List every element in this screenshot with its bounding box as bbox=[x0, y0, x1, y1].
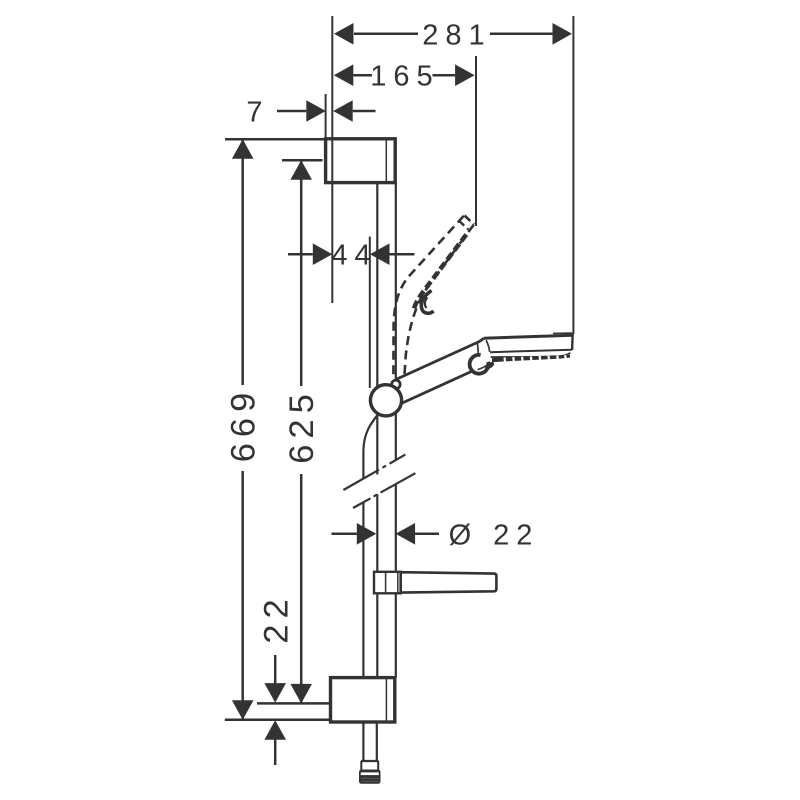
handle end cap line bbox=[477, 342, 478, 356]
bracket-left extension line (7) bbox=[325, 94, 327, 139]
handle bottom edge bbox=[399, 369, 477, 405]
svg-text:44: 44 bbox=[331, 240, 377, 272]
phantom hand shower (dashed, raised position) bbox=[393, 216, 474, 379]
dimension 625 vertical line bbox=[283, 160, 321, 703]
head top edge bbox=[484, 335, 573, 338]
phantom handle end curl bbox=[421, 291, 433, 314]
svg-text:22: 22 bbox=[258, 593, 296, 643]
dimension 281 bbox=[334, 19, 572, 51]
svg-text:281: 281 bbox=[422, 19, 491, 51]
head back edge bbox=[486, 340, 489, 352]
svg-text:165: 165 bbox=[370, 61, 439, 93]
hose ferrule bbox=[361, 761, 379, 770]
svg-text:625: 625 bbox=[283, 388, 321, 464]
top wall bracket bbox=[326, 139, 396, 183]
holder clip on head bbox=[470, 355, 494, 374]
svg-text:669: 669 bbox=[225, 387, 263, 463]
reference line bottom (625/22) bbox=[257, 702, 330, 705]
middle extension line (165) bbox=[475, 56, 477, 226]
soap dish holder bbox=[374, 572, 401, 594]
break mark lower diagonal bbox=[353, 473, 415, 508]
dimension 44 bbox=[288, 240, 415, 272]
reference line top (669) bbox=[225, 138, 326, 141]
reference line top (625) bbox=[282, 159, 323, 162]
head right cap bbox=[571, 333, 574, 350]
wall extension line bbox=[331, 16, 333, 303]
bottom wall bracket bbox=[331, 678, 395, 722]
dimension 22 leader and arrows bbox=[258, 593, 296, 765]
reference line bottom (669/22) bbox=[225, 719, 330, 722]
head face bottom line bbox=[490, 350, 572, 353]
hose bbox=[363, 413, 379, 761]
spray plate top line bbox=[491, 353, 571, 357]
spray nozzle strip bbox=[492, 355, 570, 362]
dimension 165 bbox=[334, 61, 475, 93]
svg-text:7: 7 bbox=[246, 97, 269, 129]
rail left line bbox=[376, 183, 378, 678]
handle top edge bbox=[396, 338, 484, 379]
rail right line bbox=[395, 183, 397, 678]
hand shower handle and head body (white base) bbox=[396, 334, 573, 404]
head top step line bbox=[553, 332, 572, 334]
slider ball bbox=[370, 385, 401, 416]
dimension 7 bbox=[246, 97, 375, 129]
svg-text:Ø 22: Ø 22 bbox=[449, 519, 540, 551]
right extension line (281) bbox=[572, 16, 574, 334]
soap dish arm bbox=[401, 572, 497, 592]
dimension 669 vertical line bbox=[225, 139, 263, 720]
slider ear clip bbox=[392, 380, 401, 389]
hose conical nut bbox=[359, 770, 381, 784]
dimension diameter 22 bbox=[332, 519, 540, 551]
break mark upper diagonal bbox=[343, 455, 405, 490]
short extension line (44) bbox=[369, 237, 371, 389]
